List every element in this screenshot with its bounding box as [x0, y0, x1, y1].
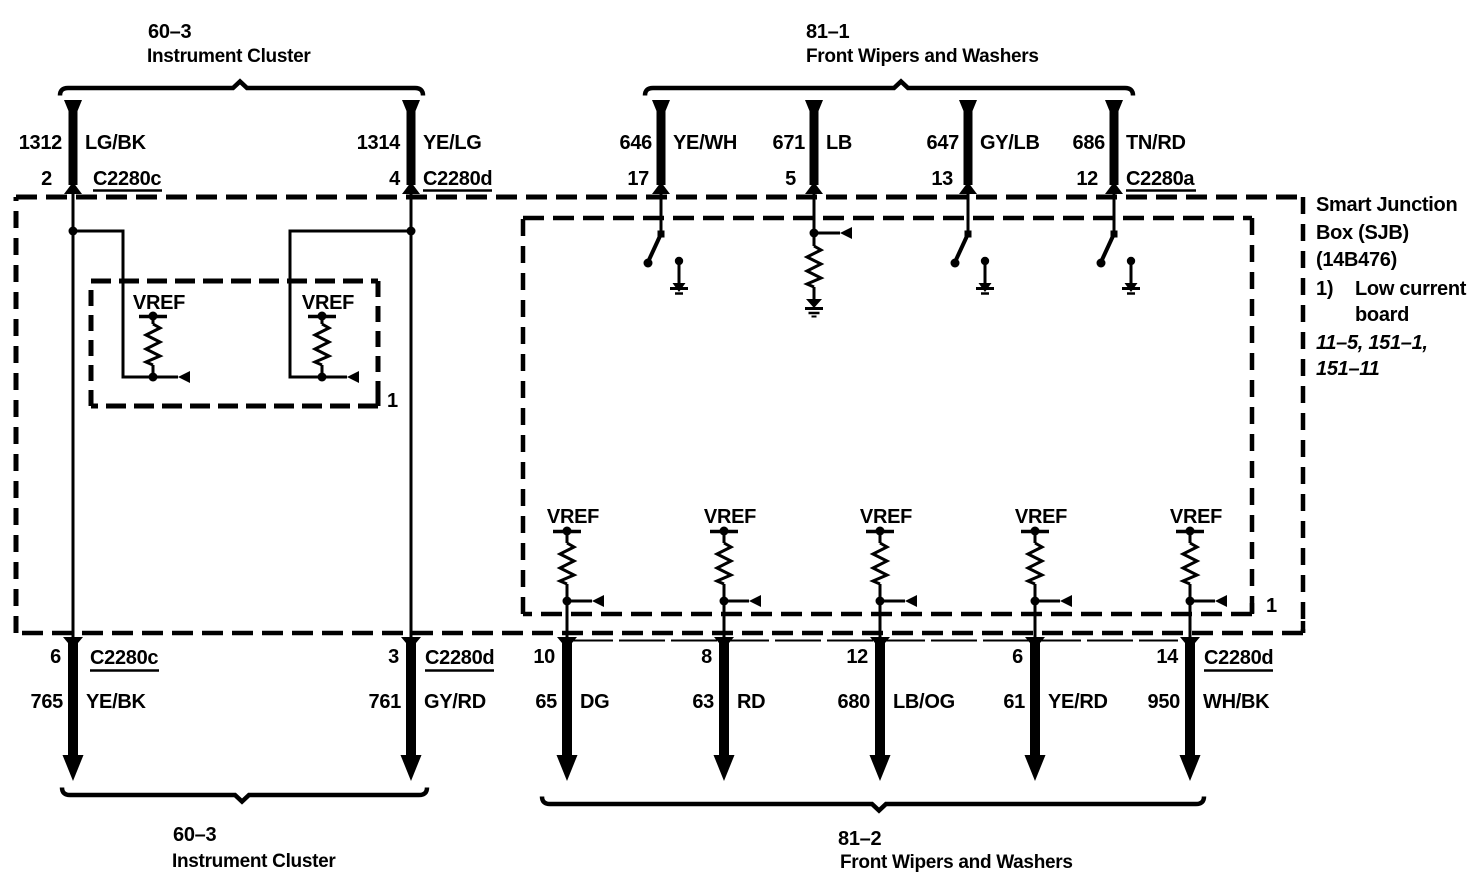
svg-text:1312: 1312 — [19, 132, 62, 154]
svg-text:TN/RD: TN/RD — [1126, 132, 1186, 154]
svg-text:151–11: 151–11 — [1316, 358, 1380, 380]
junction node on wire 671 — [810, 229, 819, 238]
switch blade (646) — [648, 236, 660, 262]
wire 646 into SJB — [660, 190, 663, 236]
underline C2280c — [93, 189, 162, 192]
signal arrow branch (671) — [814, 227, 852, 239]
svg-text:1314: 1314 — [357, 132, 401, 154]
svg-text:LB: LB — [826, 132, 852, 154]
svg-text:YE/RD: YE/RD — [1048, 691, 1108, 713]
signal arrow (R7 output) — [1190, 595, 1227, 607]
connector pin 10 (bottom bar, circuit 65) — [557, 637, 578, 781]
svg-text:1: 1 — [387, 390, 398, 412]
underline C2280a — [1126, 189, 1196, 192]
wire 65 DG labels — [533, 646, 609, 713]
signal arrow (R6 output) — [1035, 595, 1072, 607]
VREF pull-up resistor R3 (circuit 65) — [547, 506, 599, 606]
wire branch from node to VREF resistor R1 — [73, 231, 153, 377]
low current board box (left, dashed) — [91, 281, 378, 406]
wire from pin 2 down to connector 6 C2280c — [72, 190, 75, 641]
wire 761 GY/RD labels — [369, 646, 495, 713]
connector bracket: instrument cluster (bottom) — [62, 788, 427, 802]
wire 61 YE/RD labels — [1003, 646, 1107, 713]
svg-text:YE/LG: YE/LG — [423, 132, 482, 154]
svg-text:671: 671 — [773, 132, 806, 154]
signal arrow (R2 output) — [322, 371, 359, 383]
connector pin 8 (bottom bar, circuit 63) — [714, 637, 735, 781]
svg-text:12: 12 — [1076, 168, 1098, 190]
underline C2280c (bottom) — [90, 669, 159, 672]
svg-text:WH/BK: WH/BK — [1203, 691, 1270, 713]
wire R3 to connector pin 10 — [566, 601, 569, 641]
switch contact node (washer pump switch, 647) — [965, 231, 972, 238]
svg-text:6: 6 — [1012, 646, 1023, 668]
svg-text:17: 17 — [627, 168, 649, 190]
svg-text:761: 761 — [369, 691, 402, 713]
switch fixed contact with ground (647) — [976, 257, 994, 294]
svg-text:GY/RD: GY/RD — [424, 691, 486, 713]
connector bracket: front wipers and washers (bottom) — [542, 797, 1204, 811]
svg-text:RD: RD — [737, 691, 765, 713]
svg-text:686: 686 — [1073, 132, 1106, 154]
svg-text:3: 3 — [388, 646, 399, 668]
svg-text:Front Wipers and Washers: Front Wipers and Washers — [840, 852, 1073, 873]
svg-text:60–3: 60–3 — [148, 21, 191, 43]
underline C2280d (bottom right) — [1204, 669, 1273, 672]
svg-text:C2280d: C2280d — [1204, 647, 1273, 669]
wire resistor to ground (671) — [813, 287, 816, 300]
VREF pull-up resistor R6 (circuit 61) — [1015, 506, 1067, 606]
svg-text:81–2: 81–2 — [838, 828, 881, 850]
switch blade (686) — [1101, 236, 1113, 262]
Smart Junction Box outline bottom edge — [16, 631, 1303, 636]
connector pin 2 C2280c (top bar) — [64, 100, 82, 194]
svg-text:VREF: VREF — [133, 292, 185, 314]
VREF pull-up resistor R2 (left box) — [302, 292, 354, 382]
svg-text:11–5, 151–1,: 11–5, 151–1, — [1316, 332, 1428, 354]
svg-text:C2280d: C2280d — [423, 168, 492, 190]
connector pin 13 (top bar, circuit 647) — [959, 100, 977, 194]
switch contact node (wiper park switch, 646) — [658, 231, 665, 238]
scan ghost line under bottom edge — [567, 640, 1178, 642]
signal arrow (R3 output) — [567, 595, 604, 607]
label Smart Junction Box (SJB) (14B476) — [1316, 194, 1467, 380]
svg-text:2: 2 — [41, 168, 52, 190]
svg-text:63: 63 — [692, 691, 714, 713]
switch blade end node (646) — [644, 259, 653, 268]
junction node on wire 1312 — [69, 227, 78, 236]
svg-text:12: 12 — [846, 646, 868, 668]
svg-text:13: 13 — [931, 168, 953, 190]
switch fixed contact with ground (646) — [670, 257, 688, 294]
svg-text:Instrument Cluster: Instrument Cluster — [172, 851, 336, 872]
svg-text:950: 950 — [1148, 691, 1181, 713]
wire R7 to connector pin 14 — [1189, 601, 1192, 641]
connector pin 6 (bottom bar, circuit 61) — [1025, 637, 1046, 781]
Smart Junction Box outline (dashed) top edge — [16, 195, 1303, 200]
connector pin 12 (bottom bar, circuit 680) — [870, 637, 891, 781]
wire 63 RD labels — [692, 646, 765, 713]
VREF pull-up resistor R7 (circuit 950) — [1170, 506, 1222, 606]
connector bracket: front wipers and washers (top) — [645, 82, 1133, 96]
wire 950 WH/BK labels — [1148, 646, 1274, 713]
corner stub (outer box bottom-right) — [1301, 621, 1306, 633]
wire 686 into SJB — [1113, 190, 1116, 236]
svg-text:10: 10 — [533, 646, 555, 668]
signal arrow (R5 output) — [880, 595, 917, 607]
svg-text:C2280c: C2280c — [93, 168, 161, 190]
svg-text:DG: DG — [580, 691, 609, 713]
label 81-1 Front Wipers and Washers (top) — [806, 21, 1039, 67]
corner stub (right box bottom-right) — [1250, 603, 1255, 614]
svg-text:(14B476): (14B476) — [1316, 249, 1397, 271]
wire 671 into SJB — [813, 190, 816, 246]
wire 680 LB/OG labels — [838, 646, 955, 713]
svg-text:Instrument Cluster: Instrument Cluster — [147, 46, 311, 67]
wire 1314 YE/LG labels — [357, 132, 493, 190]
svg-text:4: 4 — [389, 168, 401, 190]
svg-text:Smart Junction: Smart Junction — [1316, 194, 1457, 216]
wire branch from node to VREF resistor R2 — [290, 231, 411, 377]
switch fixed contact with ground (686) — [1122, 257, 1140, 294]
VREF pull-up resistor R4 (circuit 63) — [704, 506, 756, 606]
Smart Junction Box outline right edge — [1301, 197, 1306, 633]
Smart Junction Box outline left edge — [14, 197, 19, 633]
wire 765 YE/BK labels — [31, 646, 159, 713]
svg-text:VREF: VREF — [302, 292, 354, 314]
wire R6 to connector pin 6 — [1034, 601, 1037, 641]
svg-text:Front Wipers and Washers: Front Wipers and Washers — [806, 46, 1039, 67]
wire 671 LB labels — [773, 132, 853, 190]
switch contact node (686) — [1111, 231, 1118, 238]
svg-text:VREF: VREF — [704, 506, 756, 528]
svg-text:6: 6 — [50, 646, 61, 668]
wire 646 YE/WH labels — [620, 132, 738, 190]
svg-text:5: 5 — [785, 168, 796, 190]
svg-text:81–1: 81–1 — [806, 21, 849, 43]
svg-text:647: 647 — [927, 132, 960, 154]
connector pin 14 C2280d (bottom bar, circuit 950) — [1180, 637, 1201, 781]
junction node on wire 1314 — [407, 227, 416, 236]
wire 647 GY/LB labels — [927, 132, 1040, 190]
svg-text:board: board — [1355, 304, 1409, 326]
svg-text:LG/BK: LG/BK — [85, 132, 147, 154]
resistor (671 to ground) — [807, 246, 821, 287]
svg-text:60–3: 60–3 — [173, 824, 216, 846]
label 60-3 Instrument Cluster (bottom) — [172, 824, 336, 872]
svg-text:YE/WH: YE/WH — [673, 132, 737, 154]
svg-text:680: 680 — [838, 691, 871, 713]
wire R5 to connector pin 12 — [879, 601, 882, 641]
svg-text:YE/BK: YE/BK — [86, 691, 146, 713]
svg-text:C2280c: C2280c — [90, 647, 158, 669]
wire from pin 4 down to connector 3 C2280d — [410, 190, 413, 641]
wire R4 to connector pin 8 — [723, 601, 726, 641]
svg-text:646: 646 — [620, 132, 653, 154]
svg-text:Low current: Low current — [1355, 278, 1467, 300]
underline C2280d (bottom left) — [425, 669, 494, 672]
connector pin 12 C2280a (top bar, circuit 686) — [1105, 100, 1123, 194]
svg-text:65: 65 — [535, 691, 557, 713]
VREF pull-up resistor R5 (circuit 680) — [860, 506, 912, 606]
signal arrow (R1 output) — [153, 371, 190, 383]
svg-text:VREF: VREF — [1015, 506, 1067, 528]
svg-text:765: 765 — [31, 691, 64, 713]
svg-text:VREF: VREF — [860, 506, 912, 528]
low current board box (right, dashed) — [523, 218, 1252, 614]
ground (671) — [805, 299, 823, 317]
svg-text:VREF: VREF — [1170, 506, 1222, 528]
svg-text:GY/LB: GY/LB — [980, 132, 1040, 154]
switch blade (647) — [955, 236, 967, 262]
wire 1312 LG/BK labels — [19, 132, 162, 190]
svg-text:1): 1) — [1316, 278, 1333, 300]
connector pin 6 C2280c (bottom bar, circuit 765) — [63, 637, 84, 781]
connector pin 3 C2280d (bottom bar, circuit 761) — [401, 637, 422, 781]
svg-text:8: 8 — [701, 646, 712, 668]
svg-text:14: 14 — [1156, 646, 1179, 668]
switch blade end node (686) — [1097, 259, 1106, 268]
svg-text:VREF: VREF — [547, 506, 599, 528]
connector bracket: instrument cluster (top) — [60, 82, 423, 96]
svg-text:61: 61 — [1003, 691, 1025, 713]
label 81-2 Front Wipers and Washers (bottom) — [838, 828, 1073, 873]
switch blade end node (647) — [951, 259, 960, 268]
connector pin 5 (top bar, circuit 671) — [805, 100, 823, 194]
signal arrow (R4 output) — [724, 595, 761, 607]
corner stub (left box bottom-right) — [376, 395, 381, 406]
svg-text:C2280a: C2280a — [1126, 168, 1195, 190]
svg-text:C2280d: C2280d — [425, 647, 494, 669]
underline C2280d — [423, 189, 492, 192]
label 60-3 Instrument Cluster (top) — [147, 21, 311, 67]
wire 686 TN/RD labels — [1073, 132, 1196, 190]
connector pin 17 (top bar, circuit 646) — [652, 100, 670, 194]
svg-text:Box (SJB): Box (SJB) — [1316, 222, 1409, 244]
svg-text:LB/OG: LB/OG — [893, 691, 955, 713]
VREF pull-up resistor R1 (left box) — [133, 292, 185, 382]
connector pin 4 C2280d (top bar) — [402, 100, 420, 194]
svg-text:1: 1 — [1266, 595, 1277, 617]
wire 647 into SJB — [967, 190, 970, 236]
